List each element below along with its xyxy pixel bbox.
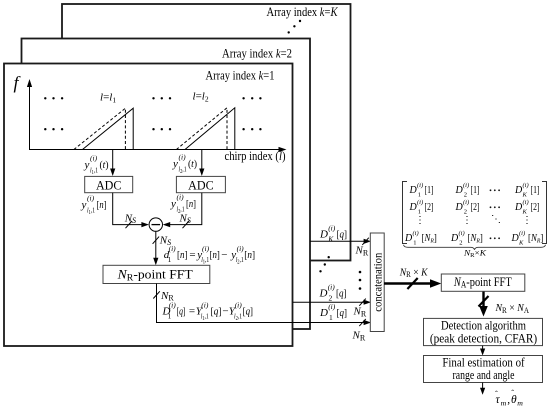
svg-text:[NR]: [NR] — [422, 233, 437, 244]
svg-text:(i): (i) — [201, 300, 209, 309]
svg-text:(i): (i) — [179, 153, 187, 162]
svg-text:(i): (i) — [90, 154, 98, 163]
svg-text:−: − — [221, 249, 227, 261]
svg-text:(i): (i) — [237, 244, 245, 253]
svg-text:[1]: [1] — [425, 185, 434, 196]
svg-text:(i): (i) — [523, 199, 529, 206]
svg-text:,: , — [507, 394, 510, 406]
svg-text:(i): (i) — [523, 182, 529, 189]
svg-text:NR×K: NR×K — [463, 248, 488, 259]
svg-text:(i): (i) — [328, 282, 336, 291]
svg-text:(i): (i) — [463, 199, 469, 206]
svg-text:ˆ: ˆ — [495, 389, 498, 399]
svg-text:(i): (i) — [177, 193, 185, 202]
svg-text:l2,1: l2,1 — [179, 165, 187, 176]
svg-text:⋮: ⋮ — [522, 215, 532, 226]
svg-text:(i): (i) — [202, 244, 210, 253]
svg-text:(i): (i) — [169, 300, 177, 309]
svg-text:K: K — [327, 234, 334, 243]
svg-text:ADC: ADC — [96, 178, 122, 192]
svg-text:[n]: [n] — [97, 199, 107, 211]
svg-text:(i): (i) — [87, 194, 95, 203]
svg-text:1: 1 — [418, 192, 421, 199]
svg-text:l1,1: l1,1 — [201, 255, 209, 266]
svg-text:1: 1 — [168, 311, 172, 320]
svg-text:K: K — [518, 240, 524, 247]
svg-text:[q]: [q] — [211, 306, 222, 318]
svg-text:[q]: [q] — [336, 288, 347, 300]
svg-text:chirp index (l): chirp index (l) — [225, 149, 286, 163]
svg-text:=: = — [189, 306, 195, 318]
svg-text:y: y — [172, 158, 178, 170]
svg-text:Array index k=2: Array index k=2 — [222, 46, 292, 60]
svg-text:1: 1 — [413, 240, 416, 247]
svg-text:(i): (i) — [417, 182, 423, 189]
svg-text:Array index k=K: Array index k=K — [267, 5, 339, 19]
svg-text:[q]: [q] — [177, 306, 186, 318]
svg-text:(i): (i) — [235, 300, 243, 309]
svg-text:l2,1: l2,1 — [236, 255, 244, 266]
svg-text:Array index k=1: Array index k=1 — [206, 69, 275, 83]
svg-text:[NR]: [NR] — [528, 233, 543, 244]
svg-text:(t): (t) — [100, 159, 109, 171]
svg-text:(peak detection, CFAR): (peak detection, CFAR) — [430, 331, 537, 345]
svg-text:l1,1: l1,1 — [201, 311, 209, 322]
svg-text:(i): (i) — [417, 199, 423, 206]
svg-text:−: − — [222, 306, 228, 318]
svg-text:(t): (t) — [188, 158, 197, 170]
svg-text:ADC: ADC — [188, 178, 214, 192]
svg-text:(i): (i) — [459, 230, 465, 237]
svg-text:y: y — [81, 199, 87, 211]
svg-text:⋮: ⋮ — [415, 215, 425, 226]
svg-text:y: y — [84, 159, 90, 171]
svg-text:[2]: [2] — [531, 202, 540, 213]
svg-text:[n]: [n] — [186, 198, 196, 210]
svg-text:D: D — [319, 229, 328, 241]
svg-text:[q]: [q] — [337, 229, 348, 241]
svg-text:[q]: [q] — [243, 306, 253, 318]
svg-text:[n]: [n] — [210, 249, 220, 261]
svg-text:D: D — [319, 288, 328, 300]
svg-text:[n]: [n] — [177, 249, 188, 261]
svg-text:(i): (i) — [519, 230, 525, 237]
svg-text:m: m — [501, 399, 507, 408]
svg-text:m: m — [517, 399, 523, 408]
svg-text:concatenation: concatenation — [370, 253, 384, 312]
svg-text:[1]: [1] — [471, 185, 480, 196]
svg-text:(i): (i) — [328, 302, 336, 311]
svg-text:=: = — [189, 249, 195, 261]
svg-text:[1]: [1] — [531, 185, 540, 196]
svg-text:⋱: ⋱ — [491, 214, 501, 225]
svg-text:D: D — [319, 307, 328, 319]
svg-text:[NR]: [NR] — [468, 233, 483, 244]
svg-text:NR × NA: NR × NA — [495, 302, 530, 315]
svg-text:range and angle: range and angle — [453, 368, 515, 382]
svg-text:l1,1: l1,1 — [90, 166, 98, 177]
svg-text:(i): (i) — [413, 230, 419, 237]
svg-text:[2]: [2] — [471, 202, 480, 213]
svg-text:(i): (i) — [463, 182, 469, 189]
svg-text:2: 2 — [464, 192, 467, 199]
svg-text:ˆ: ˆ — [511, 387, 514, 397]
svg-text:l1,1: l1,1 — [87, 206, 95, 217]
svg-text:2: 2 — [459, 240, 462, 247]
svg-text:[q]: [q] — [337, 307, 348, 319]
svg-text:[2]: [2] — [425, 202, 434, 213]
svg-text:NR: NR — [353, 306, 367, 319]
svg-text:NR: NR — [352, 330, 366, 343]
svg-text:(i): (i) — [169, 244, 177, 253]
svg-text:[n]: [n] — [244, 249, 255, 261]
svg-text:y: y — [170, 198, 176, 210]
svg-text:K: K — [522, 192, 528, 199]
svg-text:NR × K: NR × K — [399, 266, 428, 279]
svg-text:NR: NR — [355, 245, 369, 258]
svg-text:1: 1 — [329, 313, 333, 322]
svg-text:l2,1: l2,1 — [234, 311, 242, 322]
svg-text:⋮: ⋮ — [462, 215, 472, 226]
svg-text:1: 1 — [168, 255, 172, 264]
svg-text:(i): (i) — [328, 223, 336, 232]
